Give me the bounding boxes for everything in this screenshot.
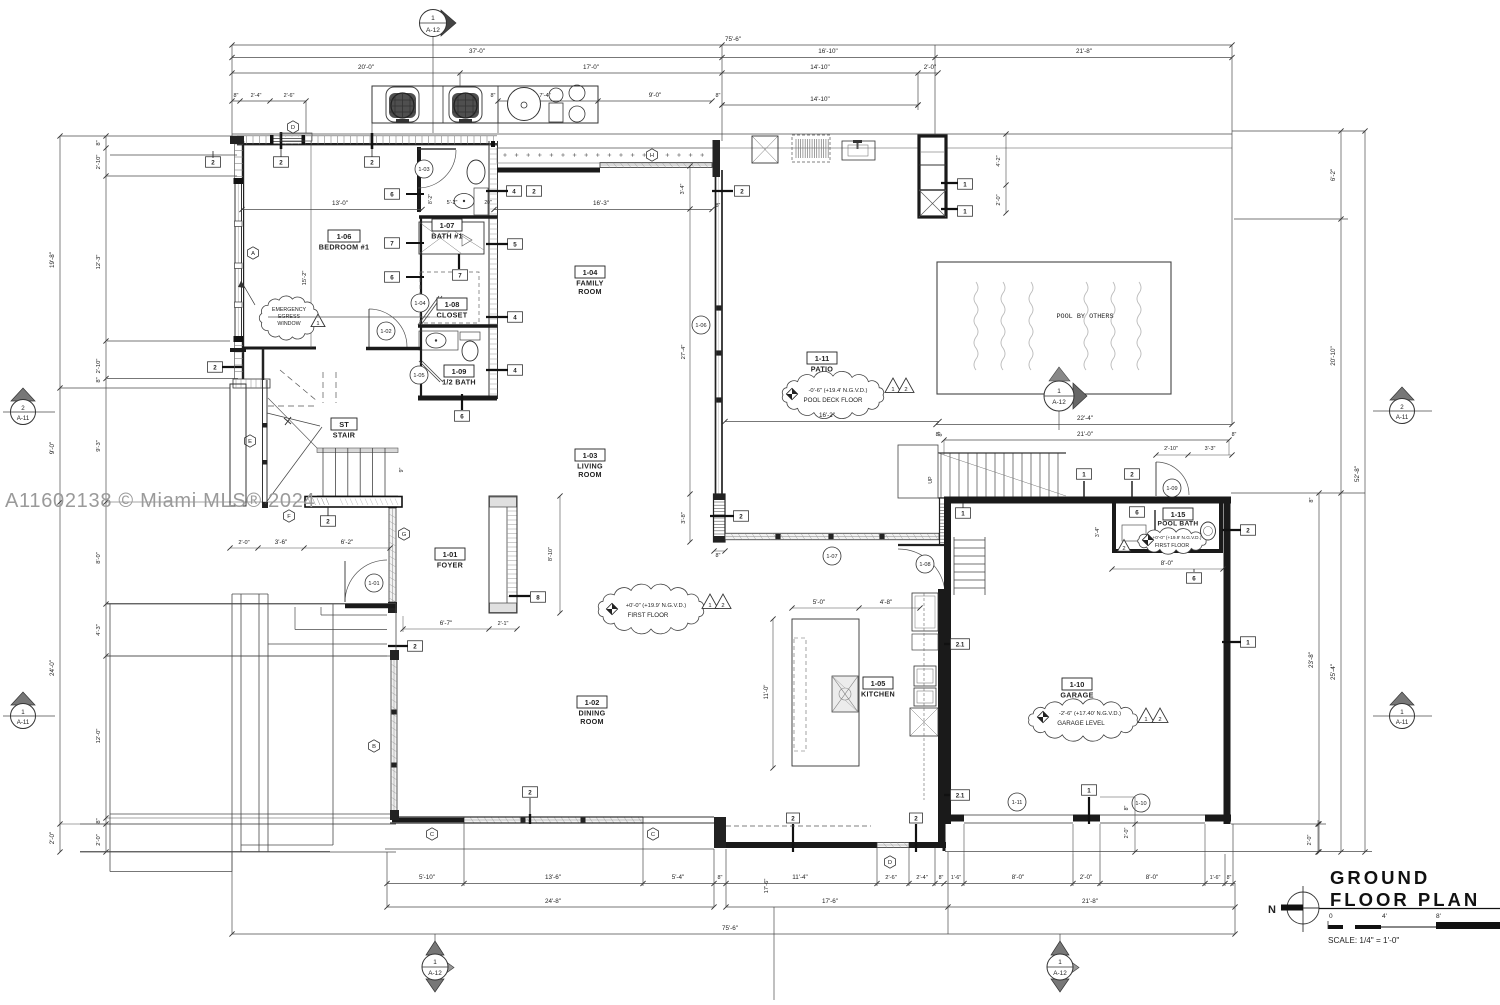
- svg-text:1: 1: [1087, 787, 1091, 794]
- svg-text:2.1: 2.1: [956, 641, 965, 648]
- svg-text:4'-8": 4'-8": [880, 599, 893, 606]
- svg-text:5: 5: [513, 241, 517, 248]
- svg-text:8": 8": [1227, 875, 1232, 881]
- svg-text:GROUND: GROUND: [1330, 867, 1430, 888]
- svg-text:37'-0": 37'-0": [469, 48, 485, 55]
- svg-text:8": 8": [718, 875, 723, 881]
- svg-text:21'-8": 21'-8": [1076, 48, 1092, 55]
- svg-text:KITCHEN: KITCHEN: [861, 690, 895, 699]
- svg-text:8'-0": 8'-0": [1012, 874, 1025, 881]
- svg-text:1-11: 1-11: [1012, 800, 1023, 806]
- svg-text:2: 2: [904, 387, 907, 393]
- svg-text:8'-0": 8'-0": [1161, 560, 1174, 567]
- svg-text:8: 8: [536, 594, 540, 601]
- svg-text:2'-10": 2'-10": [1164, 446, 1178, 452]
- svg-text:BEDROOM #1: BEDROOM #1: [319, 243, 370, 252]
- svg-text:FLOOR PLAN: FLOOR PLAN: [1330, 889, 1480, 910]
- svg-text:A: A: [251, 251, 255, 257]
- svg-text:8'-0": 8'-0": [1146, 874, 1159, 881]
- svg-text:4: 4: [513, 314, 517, 321]
- svg-text:+0'-0" (+19.9' N.G.V.D.): +0'-0" (+19.9' N.G.V.D.): [626, 603, 687, 609]
- svg-text:22'-4": 22'-4": [1077, 415, 1093, 422]
- svg-text:2: 2: [739, 513, 743, 520]
- svg-text:4: 4: [512, 188, 516, 195]
- svg-text:8'-0": 8'-0": [96, 552, 102, 564]
- svg-text:8": 8": [234, 93, 239, 99]
- svg-text:2: 2: [413, 643, 417, 650]
- svg-text:CLOSET: CLOSET: [437, 311, 468, 320]
- svg-text:1/2 BATH: 1/2 BATH: [442, 378, 476, 387]
- svg-text:8": 8": [491, 93, 496, 99]
- svg-text:27'-4": 27'-4": [681, 345, 687, 360]
- svg-text:2'-0": 2'-0": [238, 540, 249, 546]
- svg-text:2.1: 2.1: [956, 792, 965, 799]
- svg-text:1-03: 1-03: [418, 167, 429, 173]
- svg-text:1-15: 1-15: [1171, 510, 1186, 519]
- svg-text:13'-0": 13'-0": [332, 200, 348, 207]
- svg-text:1: 1: [891, 387, 894, 393]
- svg-text:8": 8": [1309, 497, 1315, 502]
- svg-text:1: 1: [1400, 709, 1404, 716]
- svg-text:1-04: 1-04: [583, 268, 599, 277]
- svg-text:GARAGE: GARAGE: [1060, 691, 1093, 700]
- svg-text:1-06: 1-06: [695, 323, 706, 329]
- svg-text:1: 1: [1058, 959, 1062, 966]
- svg-text:16'-2": 16'-2": [819, 412, 835, 419]
- svg-text:1-05: 1-05: [871, 679, 886, 688]
- svg-text:17'-6": 17'-6": [764, 879, 770, 894]
- svg-text:POOL BY OTHERS: POOL BY OTHERS: [1056, 313, 1113, 321]
- svg-text:8": 8": [96, 377, 102, 382]
- svg-text:1-07: 1-07: [826, 554, 837, 560]
- svg-text:ROOM: ROOM: [578, 287, 602, 296]
- svg-text:11'-4": 11'-4": [792, 874, 808, 881]
- svg-text:D: D: [888, 860, 892, 866]
- svg-text:1-09: 1-09: [1166, 486, 1177, 492]
- svg-text:3'-6": 3'-6": [275, 539, 288, 546]
- svg-text:1: 1: [1144, 717, 1147, 723]
- svg-text:E: E: [248, 439, 252, 445]
- svg-text:1-10: 1-10: [1135, 801, 1146, 807]
- svg-text:12'-3": 12'-3": [96, 255, 102, 270]
- svg-text:6: 6: [390, 191, 394, 198]
- svg-text:21'-0": 21'-0": [1077, 431, 1093, 438]
- svg-text:C: C: [651, 832, 655, 838]
- svg-text:52'-8": 52'-8": [1354, 466, 1361, 482]
- svg-text:A-12: A-12: [428, 970, 442, 977]
- svg-text:BATH #1: BATH #1: [431, 232, 463, 241]
- svg-text:2: 2: [1158, 717, 1161, 723]
- svg-text:2: 2: [211, 159, 215, 166]
- svg-text:1-05: 1-05: [413, 373, 424, 379]
- svg-text:6: 6: [460, 413, 464, 420]
- svg-text:A-11: A-11: [1396, 719, 1409, 726]
- svg-text:6'-2": 6'-2": [1330, 169, 1337, 182]
- svg-text:14'-10": 14'-10": [810, 96, 830, 103]
- svg-text:A-11: A-11: [17, 719, 30, 726]
- svg-text:2: 2: [532, 188, 536, 195]
- svg-text:19'-8": 19'-8": [49, 252, 56, 268]
- svg-text:2'-0": 2'-0": [924, 64, 937, 71]
- svg-text:1-01: 1-01: [368, 581, 379, 587]
- svg-text:1-01: 1-01: [443, 550, 458, 559]
- svg-text:8": 8": [939, 875, 944, 881]
- svg-text:20": 20": [484, 200, 492, 206]
- svg-text:24'-8": 24'-8": [545, 898, 561, 905]
- svg-text:8'-2": 8'-2": [428, 194, 434, 204]
- svg-text:20'-0": 20'-0": [358, 64, 374, 71]
- svg-text:6'-2": 6'-2": [341, 539, 354, 546]
- svg-text:D: D: [291, 125, 295, 131]
- svg-text:3'-3": 3'-3": [1205, 446, 1216, 452]
- svg-text:9'-0": 9'-0": [49, 442, 56, 455]
- svg-text:F: F: [287, 514, 291, 520]
- svg-text:15'-2": 15'-2": [302, 271, 308, 286]
- svg-text:-2'-6" (+17.40' N.G.V.D.): -2'-6" (+17.40' N.G.V.D.): [1059, 711, 1121, 717]
- svg-text:8'-10": 8'-10": [548, 547, 554, 561]
- svg-text:3'-4": 3'-4": [680, 184, 686, 195]
- svg-text:6'-7": 6'-7": [440, 620, 453, 627]
- svg-text:A11602138 © Miami MLS® 2024: A11602138 © Miami MLS® 2024: [5, 490, 315, 512]
- svg-text:1-02: 1-02: [380, 329, 391, 335]
- svg-text:7: 7: [390, 240, 394, 247]
- svg-text:B: B: [372, 744, 376, 750]
- svg-text:WINDOW: WINDOW: [277, 321, 300, 327]
- svg-text:H: H: [650, 153, 654, 159]
- svg-text:STAIR: STAIR: [333, 431, 356, 440]
- svg-text:8": 8": [96, 818, 102, 823]
- svg-text:1: 1: [1082, 471, 1086, 478]
- svg-text:1-02: 1-02: [585, 698, 600, 707]
- svg-text:8": 8": [1232, 432, 1237, 438]
- svg-text:1: 1: [316, 321, 319, 327]
- svg-text:5'-4": 5'-4": [672, 874, 685, 881]
- svg-text:4'-3": 4'-3": [96, 624, 102, 636]
- svg-text:2'-0": 2'-0": [1307, 835, 1313, 846]
- svg-text:16'-3": 16'-3": [593, 200, 609, 207]
- svg-text:20'-10": 20'-10": [1330, 346, 1337, 366]
- svg-text:A-12: A-12: [1052, 399, 1066, 406]
- svg-text:1-06: 1-06: [337, 232, 352, 241]
- svg-text:1-11: 1-11: [815, 354, 829, 363]
- svg-text:23'-8": 23'-8": [1308, 652, 1315, 668]
- svg-text:5'-10": 5'-10": [419, 874, 435, 881]
- svg-text:4'-2": 4'-2": [996, 155, 1002, 166]
- svg-text:2'-0": 2'-0": [1080, 874, 1093, 881]
- svg-text:1: 1: [963, 208, 967, 215]
- svg-text:ROOM: ROOM: [580, 717, 604, 726]
- svg-text:1: 1: [433, 959, 437, 966]
- svg-text:1-09: 1-09: [452, 367, 467, 376]
- svg-text:2'-0": 2'-0": [996, 194, 1002, 205]
- svg-text:21'-8": 21'-8": [1082, 898, 1098, 905]
- svg-text:1-07: 1-07: [440, 221, 455, 230]
- svg-text:1-08: 1-08: [445, 300, 460, 309]
- svg-text:5'-2": 5'-2": [447, 200, 458, 206]
- svg-text:2: 2: [914, 815, 918, 822]
- svg-text:1: 1: [21, 709, 25, 716]
- svg-text:POOL BATH: POOL BATH: [1158, 521, 1199, 528]
- svg-text:2: 2: [1400, 404, 1404, 411]
- svg-text:3'-4": 3'-4": [1095, 527, 1101, 537]
- svg-text:2'-0": 2'-0": [1124, 828, 1130, 839]
- svg-text:2'-10": 2'-10": [96, 359, 102, 374]
- svg-text:UP: UP: [928, 476, 934, 484]
- svg-text:2'-0": 2'-0": [96, 834, 102, 846]
- svg-text:17'-6": 17'-6": [822, 898, 838, 905]
- svg-text:8': 8': [1436, 913, 1441, 920]
- svg-text:FIRST FLOOR: FIRST FLOOR: [628, 612, 669, 619]
- svg-text:4': 4': [1382, 913, 1387, 920]
- svg-text:1: 1: [1057, 388, 1061, 395]
- svg-text:24'-0": 24'-0": [49, 660, 56, 676]
- svg-text:2'-4": 2'-4": [251, 93, 262, 99]
- svg-text:17'-0": 17'-0": [583, 64, 599, 71]
- svg-text:SCALE: 1/4" = 1'-0": SCALE: 1/4" = 1'-0": [1328, 936, 1399, 945]
- svg-text:2: 2: [528, 789, 532, 796]
- svg-text:ST: ST: [339, 420, 349, 429]
- svg-text:7: 7: [458, 272, 462, 279]
- svg-text:1-04: 1-04: [414, 301, 425, 307]
- svg-text:8": 8": [1124, 805, 1130, 810]
- svg-text:2: 2: [1130, 471, 1134, 478]
- svg-text:1-10: 1-10: [1070, 680, 1085, 689]
- svg-text:16'-10": 16'-10": [818, 48, 838, 55]
- svg-text:8": 8": [716, 203, 721, 209]
- svg-text:1: 1: [963, 181, 967, 188]
- svg-text:G: G: [402, 532, 407, 538]
- svg-text:13'-6": 13'-6": [545, 874, 561, 881]
- svg-text:2: 2: [721, 603, 724, 609]
- svg-text:75'-6": 75'-6": [725, 36, 741, 43]
- svg-text:EMERGENCY: EMERGENCY: [272, 307, 307, 313]
- svg-text:8": 8": [936, 432, 941, 438]
- svg-text:1: 1: [708, 603, 711, 609]
- svg-text:2: 2: [1122, 546, 1125, 552]
- svg-text:3'-8": 3'-8": [681, 512, 687, 524]
- svg-text:1'-6": 1'-6": [1210, 875, 1221, 881]
- svg-text:1: 1: [1246, 639, 1250, 646]
- svg-text:6: 6: [1192, 575, 1196, 582]
- svg-text:5'-0": 5'-0": [813, 599, 826, 606]
- svg-text:6: 6: [1135, 509, 1139, 516]
- svg-text:FIRST FLOOR: FIRST FLOOR: [1155, 543, 1189, 549]
- svg-text:9'-3": 9'-3": [96, 440, 102, 452]
- svg-text:+0'-0" (+19.9' N.G.V.D.): +0'-0" (+19.9' N.G.V.D.): [1153, 535, 1202, 540]
- svg-text:12'-0": 12'-0": [96, 729, 102, 744]
- svg-text:2'-1": 2'-1": [498, 621, 509, 627]
- svg-text:75'-6": 75'-6": [722, 925, 738, 932]
- svg-text:9": 9": [399, 467, 405, 472]
- svg-text:9'-0": 9'-0": [649, 92, 662, 99]
- svg-text:A-11: A-11: [1396, 414, 1409, 421]
- svg-text:2'-10": 2'-10": [96, 155, 102, 170]
- svg-text:2: 2: [279, 159, 283, 166]
- svg-text:1: 1: [431, 15, 435, 22]
- svg-text:2: 2: [21, 405, 25, 412]
- svg-text:2'-4": 2'-4": [916, 875, 928, 881]
- svg-text:2'-0": 2'-0": [49, 832, 56, 845]
- svg-text:A-12: A-12: [426, 27, 440, 34]
- svg-text:POOL DECK FLOOR: POOL DECK FLOOR: [804, 397, 863, 404]
- svg-text:-0'-6" (+19.4' N.G.V.D.): -0'-6" (+19.4' N.G.V.D.): [809, 388, 868, 394]
- svg-text:0: 0: [1329, 913, 1333, 920]
- svg-text:FOYER: FOYER: [437, 561, 464, 570]
- svg-text:11'-0": 11'-0": [764, 685, 770, 700]
- svg-text:8": 8": [96, 140, 102, 145]
- svg-text:2: 2: [326, 518, 330, 525]
- svg-text:N: N: [1268, 904, 1276, 916]
- svg-text:A-11: A-11: [17, 415, 30, 422]
- svg-text:ROOM: ROOM: [578, 470, 602, 479]
- svg-text:1-08: 1-08: [919, 562, 930, 568]
- svg-text:4: 4: [513, 367, 517, 374]
- svg-text:14'-10": 14'-10": [810, 64, 830, 71]
- svg-text:2: 2: [213, 364, 217, 371]
- svg-text:GARAGE LEVEL: GARAGE LEVEL: [1057, 720, 1105, 727]
- svg-text:8": 8": [716, 93, 721, 99]
- svg-text:2: 2: [791, 815, 795, 822]
- svg-text:1-03: 1-03: [583, 451, 598, 460]
- svg-text:2'-6": 2'-6": [284, 93, 295, 99]
- svg-text:C: C: [430, 832, 434, 838]
- svg-text:2: 2: [1246, 527, 1250, 534]
- svg-text:2'-6": 2'-6": [885, 875, 897, 881]
- svg-text:6: 6: [390, 274, 394, 281]
- svg-text:A-12: A-12: [1053, 970, 1067, 977]
- svg-text:8": 8": [716, 553, 721, 559]
- svg-text:25'-4": 25'-4": [1330, 664, 1337, 680]
- svg-text:2: 2: [370, 159, 374, 166]
- svg-text:2: 2: [740, 188, 744, 195]
- svg-text:1: 1: [961, 510, 965, 517]
- svg-text:1'-6": 1'-6": [951, 875, 961, 881]
